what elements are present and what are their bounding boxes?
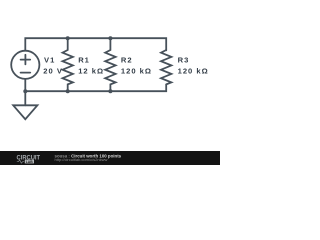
resistor R3 bbox=[161, 50, 171, 84]
node bottom junction V1/ground bbox=[23, 89, 27, 93]
wire bottom rail bbox=[25, 79, 166, 105]
node bottom junction R2 bbox=[108, 89, 112, 93]
svg-text:20 V: 20 V bbox=[43, 67, 63, 76]
svg-text:R2: R2 bbox=[121, 55, 133, 64]
wire top rail bbox=[25, 38, 166, 50]
footer bbox=[0, 151, 220, 165]
svg-text:120 kΩ: 120 kΩ bbox=[121, 67, 152, 76]
svg-text:LAB: LAB bbox=[26, 160, 34, 164]
node top junction R2 bbox=[108, 36, 112, 40]
svg-text:R3: R3 bbox=[178, 55, 190, 64]
resistor R2 bbox=[105, 38, 115, 91]
node bottom junction R1 bbox=[66, 89, 70, 93]
voltage source V1 bbox=[11, 51, 39, 79]
resistor R1 bbox=[63, 38, 73, 91]
svg-text:http://circuitlab.com/c/s2nkww: http://circuitlab.com/c/s2nkww bbox=[55, 157, 108, 162]
svg-text:V1: V1 bbox=[44, 55, 55, 64]
ground bbox=[13, 105, 37, 119]
svg-text:R1: R1 bbox=[78, 55, 90, 64]
svg-text:120 kΩ: 120 kΩ bbox=[178, 67, 209, 76]
node top junction R1 bbox=[66, 36, 70, 40]
svg-text:12 kΩ: 12 kΩ bbox=[78, 67, 104, 76]
